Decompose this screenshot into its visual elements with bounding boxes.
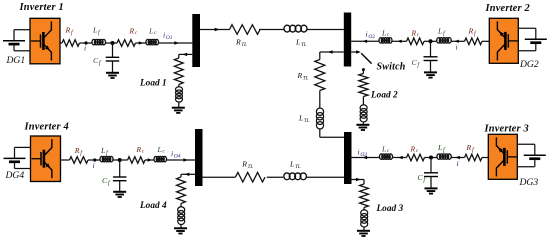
svg-text:DG1: DG1	[6, 55, 26, 66]
inductor L_TL (middle)	[316, 108, 323, 129]
battery DG4	[4, 147, 31, 168]
svg-text:Rf: Rf	[468, 27, 477, 38]
label C_f (inverter 3)	[418, 173, 427, 184]
switch blade	[361, 53, 371, 63]
label Inverter 2	[485, 3, 530, 14]
svg-text:Rf: Rf	[466, 143, 475, 154]
label Load 1	[139, 78, 167, 88]
svg-text:LTL: LTL	[298, 114, 310, 125]
inductor Lc (inverter 4)	[154, 156, 167, 161]
svg-text:iO4: iO4	[171, 149, 181, 160]
resistor R_f (inverter 3)	[465, 154, 483, 161]
label Lc (inverter 1)	[148, 26, 157, 36]
label Lc (inverter 2)	[381, 28, 390, 38]
node i dot (inverter 4)	[93, 158, 96, 161]
resistor R_TL (bottom)	[235, 172, 265, 182]
inductor L_f (inverter 2)	[437, 38, 452, 43]
resistor load4	[177, 177, 186, 204]
label L_TL (bottom)	[289, 160, 301, 171]
wire load3 down	[363, 180, 365, 185]
inverter U4 box	[31, 136, 61, 182]
label DG1	[6, 55, 26, 66]
inductor L_f (inverter 3)	[437, 154, 451, 159]
arrow load4 stub	[185, 173, 190, 176]
svg-text:RTL: RTL	[241, 160, 253, 171]
wire Lc to Rc (row2 right)	[393, 157, 407, 159]
resistor Rc (inverter 3)	[407, 154, 425, 161]
label Rc (inverter 1)	[129, 26, 138, 36]
wire L_f to R_f (row2 right)	[451, 157, 464, 159]
wire middle res to coil	[319, 91, 321, 109]
label C_f (inverter 1)	[93, 56, 102, 67]
wire switch stub	[351, 51, 357, 53]
svg-text:Lf: Lf	[437, 143, 446, 154]
arrow switch stub	[356, 50, 361, 53]
arrow i_O4	[183, 158, 188, 161]
label DG3	[519, 177, 539, 188]
svg-text:i: i	[93, 161, 95, 170]
resistor Rc (inverter 4)	[128, 157, 145, 164]
inductor load2	[360, 105, 367, 122]
inductor L_f (inverter 1)	[92, 39, 105, 44]
svg-text:i: i	[457, 159, 459, 168]
svg-text:Switch: Switch	[377, 61, 406, 72]
wire inverter1 to R_f	[60, 42, 62, 44]
svg-text:iO2: iO2	[366, 30, 376, 41]
svg-text:DG4: DG4	[5, 170, 25, 181]
svg-text:DG2: DG2	[519, 59, 539, 70]
svg-text:i: i	[456, 42, 458, 51]
wire inverter4 to R_f	[61, 159, 70, 161]
arrow i_O1	[174, 41, 179, 44]
node junction C_f (inverter 1)	[111, 41, 115, 45]
wire load2 res to coil	[362, 97, 364, 105]
wire C_f to ground (inverter 2)	[430, 61, 432, 73]
label Lc (inverter 3)	[381, 145, 390, 155]
transistor Q4 (IGBT inverter 4)	[32, 139, 52, 178]
resistor R_f (inverter 2)	[465, 38, 483, 45]
inductor Lc (inverter 3)	[380, 154, 393, 159]
resistor R_TL (middle)	[315, 60, 325, 91]
ground C_f (inverter 4)	[113, 192, 126, 197]
wire C_f stub (inverter 3)	[430, 158, 432, 173]
arrow after Rc (row2 left)	[148, 158, 152, 161]
resistor R_f (inverter 4)	[70, 157, 89, 164]
ground load1	[172, 108, 185, 113]
label i_O1	[163, 30, 173, 41]
svg-text:Lc: Lc	[381, 28, 390, 38]
svg-text:Cf: Cf	[412, 58, 421, 69]
wire bus2 branch stub	[320, 51, 344, 53]
svg-text:Load 2: Load 2	[370, 91, 398, 101]
label DG2	[519, 59, 539, 70]
wire L_TL to bus2 (top)	[307, 29, 344, 31]
label Rc (inverter 2)	[411, 28, 420, 38]
label L_f (inverter 2)	[437, 27, 446, 38]
svg-text:Cf: Cf	[102, 176, 111, 187]
bus bar 2	[344, 13, 351, 67]
arrow middle branch	[328, 50, 333, 53]
wire middle coil to bus3	[320, 129, 344, 137]
svg-text:Inverter 4: Inverter 4	[24, 122, 69, 133]
inductor L_TL (top)	[284, 25, 307, 32]
svg-text:i: i	[84, 44, 86, 53]
arrow after Lc (row2 right)	[398, 156, 402, 159]
svg-text:Rc: Rc	[411, 28, 420, 38]
arrow after Rc (row1 left)	[139, 41, 143, 44]
transistor Q2 (IGBT inverter 2)	[497, 21, 517, 60]
inductor L_f (inverter 4)	[100, 156, 113, 161]
svg-text:iO1: iO1	[163, 30, 173, 41]
wire R_TL to L_TL (bottom)	[267, 176, 283, 178]
svg-text:Inverter 2: Inverter 2	[485, 3, 530, 14]
svg-text:Rc: Rc	[410, 145, 419, 155]
bus bar 4	[195, 129, 203, 186]
label i (inverter 3)	[457, 159, 459, 168]
resistor Rc (inverter 1)	[117, 40, 136, 47]
resistor load2	[359, 74, 368, 97]
wire bus4 to R_TL (bottom)	[203, 176, 236, 178]
wire middle branch down	[319, 52, 321, 60]
wire load4 stub	[181, 173, 195, 175]
wire load4 res to coil	[180, 204, 182, 207]
wire L_TL to bus3 (bottom)	[306, 176, 344, 178]
wire L_f to R_f (row1 right)	[451, 40, 464, 42]
wire bus3 to Lc (row2 right)	[352, 157, 380, 159]
wire C_f stub (inverter 4)	[119, 160, 121, 177]
arrow after Lc (row1 right)	[397, 40, 401, 43]
inductor Lc (inverter 1)	[146, 39, 159, 44]
wire Rc to Lc (row1 left)	[136, 42, 147, 44]
inductor L_TL (bottom)	[284, 173, 307, 180]
arrow load3 stub	[356, 178, 361, 181]
wire C_f to ground (inverter 4)	[119, 181, 121, 192]
label R_f (inverter 2)	[468, 27, 477, 38]
label C_f (inverter 2)	[412, 58, 421, 69]
ground C_f (inverter 2)	[424, 72, 437, 77]
wire L_f to node (row1 left)	[106, 42, 118, 44]
svg-text:RTL: RTL	[235, 37, 247, 48]
capacitor C_f (inverter 4)	[113, 177, 127, 181]
arrow i_O3	[363, 156, 368, 159]
label R_TL (top)	[235, 37, 247, 48]
ground C_f (inverter 1)	[106, 73, 119, 78]
label i (inverter 4)	[93, 161, 95, 170]
battery DG1	[3, 30, 30, 51]
arrow i_O2	[363, 40, 368, 43]
label Load 4	[139, 201, 167, 211]
label L_f (inverter 4)	[100, 146, 109, 157]
svg-text:Lf: Lf	[92, 26, 101, 37]
label L_f (inverter 1)	[92, 26, 101, 37]
wire Lc to Rc (row1 right)	[392, 40, 407, 42]
wire R_f to L_f (row1 left)	[80, 42, 93, 44]
label Load 3	[376, 204, 404, 214]
wire C_f to ground (inverter 3)	[430, 177, 432, 189]
transistor Q3 (IGBT inverter 3)	[496, 137, 516, 176]
label Switch	[377, 61, 406, 72]
capacitor C_f (inverter 2)	[424, 57, 438, 61]
label i_O2	[366, 30, 376, 41]
label L_TL (middle)	[298, 114, 310, 125]
svg-text:iO3: iO3	[358, 147, 368, 158]
ground load4	[174, 228, 187, 233]
label R_f (inverter 3)	[466, 143, 475, 154]
label R_f (inverter 4)	[74, 146, 83, 157]
svg-text:Lc: Lc	[157, 145, 166, 155]
node junction C_f (inverter 3)	[429, 156, 433, 160]
capacitor C_f (inverter 3)	[424, 173, 438, 177]
wire bus2 to Lc (row1 right)	[351, 40, 379, 42]
svg-text:LTL: LTL	[289, 160, 301, 171]
label i (inverter 1)	[84, 44, 86, 53]
inverter U3 box	[488, 134, 517, 179]
wire load1 coil to ground	[178, 102, 180, 108]
resistor Rc (inverter 2)	[407, 38, 425, 45]
ground load2	[356, 125, 369, 130]
wire load3 stub	[352, 179, 365, 181]
resistor R_TL (top)	[230, 25, 261, 35]
label C_f (inverter 4)	[102, 176, 111, 187]
svg-text:Inverter 1: Inverter 1	[19, 2, 64, 13]
node junction C_f (inverter 2)	[429, 39, 433, 43]
wire Rc to Lc (row2 left)	[145, 159, 154, 161]
ground load3	[357, 231, 370, 236]
wire bus1 to R_TL (top)	[200, 29, 230, 31]
wire load4 coil to ground	[180, 225, 182, 229]
wire R_f to inverter3	[482, 157, 488, 159]
battery DG3	[517, 144, 546, 167]
wire R_TL to L_TL (top)	[259, 29, 284, 31]
inductor load1	[176, 87, 183, 102]
label i_O4	[171, 149, 181, 160]
svg-text:Lc: Lc	[381, 145, 390, 155]
label R_f (inverter 1)	[65, 26, 74, 37]
label R_TL (bottom)	[241, 160, 253, 171]
switch contact node	[362, 68, 365, 71]
svg-text:Rf: Rf	[65, 26, 74, 37]
label L_TL (top)	[295, 37, 307, 48]
inverter U2 box	[489, 18, 518, 63]
inverter U1 box	[30, 18, 60, 64]
wire R_f to inverter2	[482, 40, 489, 42]
label i (inverter 2)	[456, 42, 458, 51]
label i_O3	[358, 147, 368, 158]
label R_TL (middle)	[297, 71, 309, 82]
wire C_f to ground (inverter 1)	[112, 61, 114, 73]
inductor load3	[361, 210, 368, 227]
arrow node i (inverter 3)	[455, 156, 459, 159]
wire R_f to L_f (row2 left)	[88, 159, 100, 161]
arrow top TL	[215, 28, 220, 31]
label DG4	[5, 170, 25, 181]
svg-text:Rf: Rf	[74, 146, 83, 157]
svg-text:Lf: Lf	[100, 146, 109, 157]
svg-text:Cf: Cf	[418, 173, 427, 184]
wire load3 res to coil	[363, 208, 365, 210]
ground C_f (inverter 3)	[425, 188, 438, 193]
label L_f (inverter 3)	[437, 143, 446, 154]
arrow node i (inverter 2)	[454, 40, 458, 43]
resistor load3	[360, 184, 369, 208]
wire Lc to bus4	[167, 159, 196, 161]
label Inverter 3	[484, 124, 529, 135]
resistor R_f (inverter 1)	[62, 40, 80, 47]
wire Lc to bus1	[159, 42, 193, 44]
node i dot (inverter 1)	[84, 41, 87, 44]
svg-text:DG3: DG3	[519, 177, 539, 188]
wire load3 coil to ground	[363, 227, 365, 231]
resistor load1	[174, 58, 183, 85]
arrow load1 stub	[183, 53, 188, 56]
label Rc (inverter 3)	[410, 145, 419, 155]
svg-text:Lc: Lc	[148, 26, 157, 36]
inductor Lc (inverter 2)	[379, 38, 392, 43]
capacitor C_f (inverter 1)	[106, 57, 120, 61]
label Lc (inverter 4)	[157, 145, 166, 155]
battery DG2	[518, 28, 547, 51]
svg-text:Inverter 3: Inverter 3	[484, 124, 529, 135]
transistor Q1 (IGBT inverter 1)	[31, 22, 51, 61]
label Load 2	[370, 91, 398, 101]
inductor load4	[178, 207, 185, 225]
svg-text:LTL: LTL	[295, 37, 307, 48]
svg-text:Rc: Rc	[136, 145, 145, 155]
wire Rc to node (row1 right)	[424, 40, 437, 42]
svg-text:Load 3: Load 3	[376, 204, 404, 214]
svg-text:Rc: Rc	[129, 26, 138, 36]
wire load1 stub	[179, 53, 193, 55]
svg-text:Load 4: Load 4	[139, 201, 167, 211]
bus bar 3	[344, 132, 352, 184]
wire load1 down	[178, 54, 180, 58]
wire C_f stub (inverter 2)	[430, 41, 432, 57]
svg-text:RTL: RTL	[297, 71, 309, 82]
wire load2 coil to ground	[362, 122, 364, 125]
svg-text:Cf: Cf	[93, 56, 102, 67]
wire L_f to node (row2 left)	[113, 159, 128, 161]
wire C_f stub (inverter 1)	[112, 43, 114, 57]
svg-text:Load 1: Load 1	[139, 78, 167, 88]
label Inverter 4	[24, 122, 69, 133]
wire load4 down	[180, 174, 182, 177]
node junction C_f (inverter 4)	[118, 158, 122, 162]
label Inverter 1	[19, 2, 64, 13]
svg-text:Lf: Lf	[437, 27, 446, 38]
label Rc (inverter 4)	[136, 145, 145, 155]
wire Rc to node (row2 right)	[425, 157, 438, 159]
bus bar 1	[192, 14, 200, 67]
wire switch to load2	[362, 70, 364, 74]
wire load1 res to coil	[178, 85, 180, 87]
